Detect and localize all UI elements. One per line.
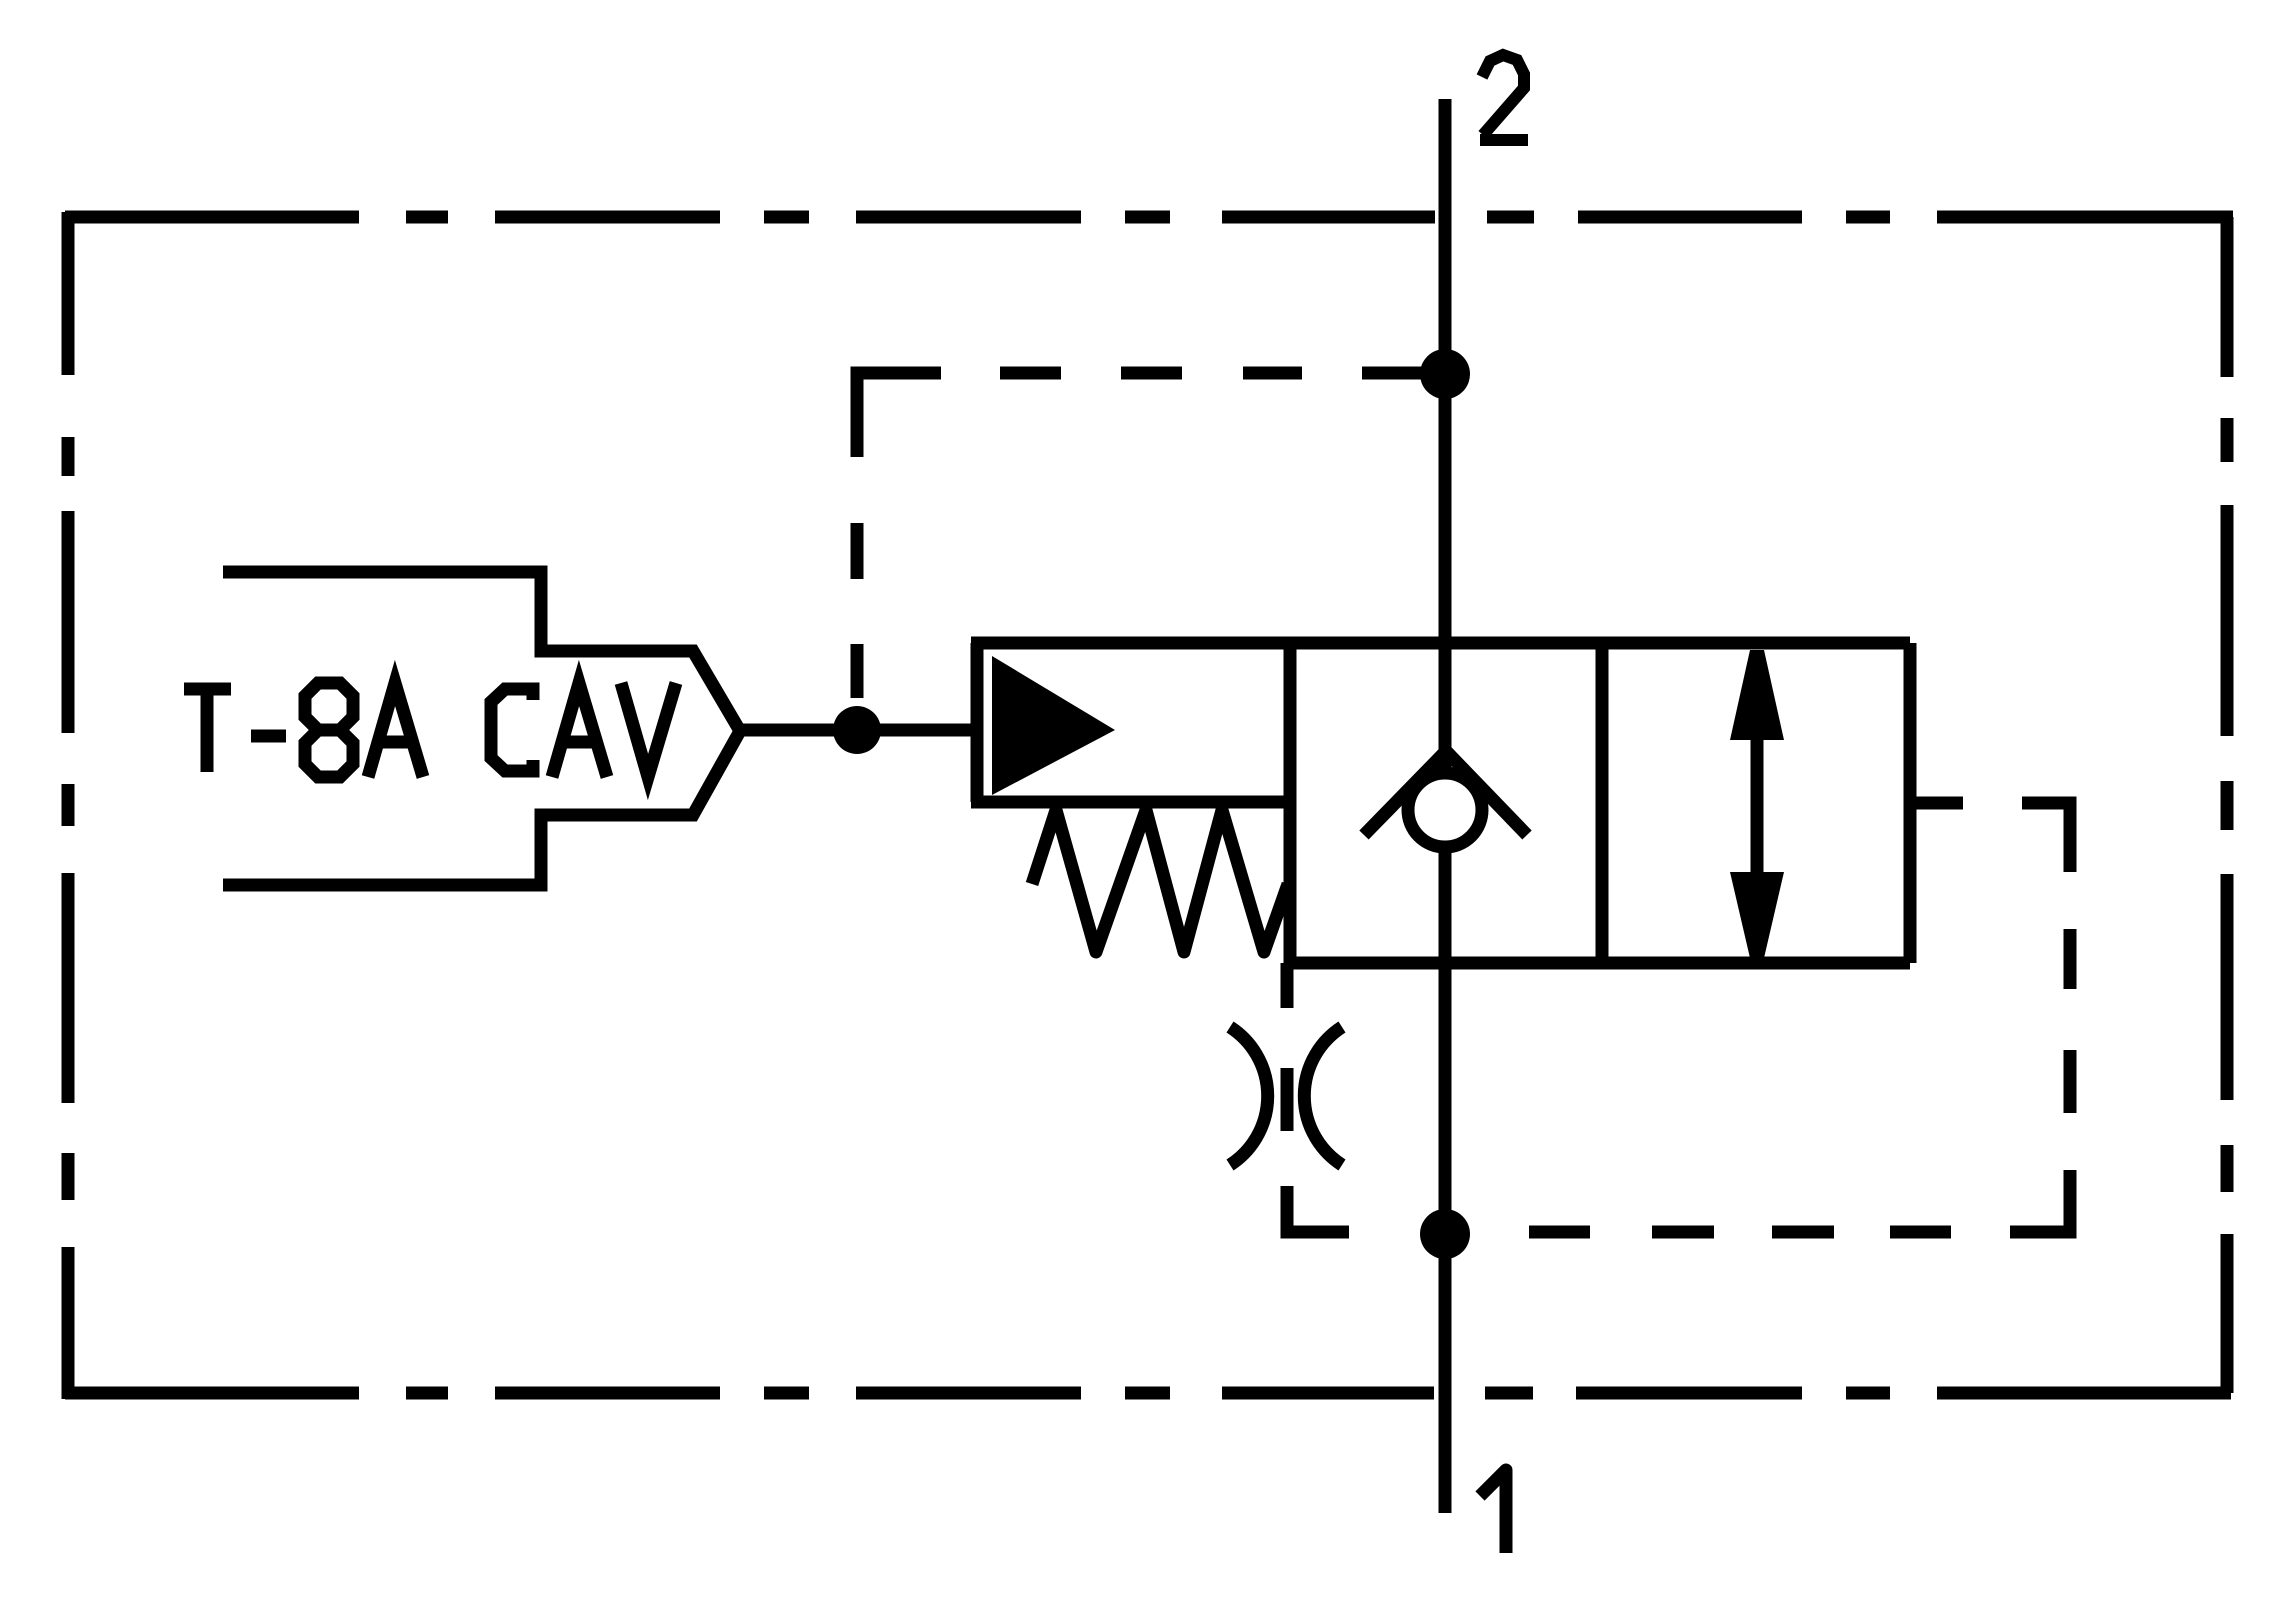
right stub wire (1910, 797, 1963, 810)
port 2 line (upper segment) (1439, 99, 1452, 770)
double arrow top head (1730, 650, 1784, 740)
right pilot dashed line to dot C (1529, 1226, 1951, 1239)
node junction dot A (833, 706, 881, 754)
cavity text glyph C (491, 689, 533, 771)
pilot dashed line horizontal to port 2 (1000, 367, 1421, 380)
port 2 line (lower segment) (1439, 850, 1452, 1513)
check valve seat chevron (1364, 751, 1527, 835)
cavity text glyph 8 (305, 683, 353, 777)
cavity text glyph A2 (552, 683, 607, 777)
port label 1 (1480, 1470, 1506, 1553)
double arrow shaft (1751, 730, 1764, 880)
wire cavity to pilot box (739, 724, 980, 737)
cavity text glyph hyphen (251, 730, 286, 743)
boundary top (dash-dot) (65, 211, 2233, 224)
valve divider left (1284, 643, 1297, 963)
orifice arcs (1230, 1027, 1342, 1165)
node junction dot C on port 1 (1420, 1209, 1470, 1259)
double arrow bottom head (1730, 872, 1784, 958)
node junction dot B on port 2 (1420, 349, 1470, 399)
pilot box bottom edge (971, 796, 1290, 809)
valve divider right (1596, 643, 1609, 963)
right pilot dashed line down (2010, 803, 2070, 1232)
cavity flag outline T-8A CAV (223, 572, 740, 885)
valve top edge (971, 637, 1910, 650)
boundary left (dash-dot) (62, 212, 75, 1399)
cavity text glyph V (621, 683, 676, 777)
cavity text glyph A (368, 683, 423, 777)
boundary right (dash-dot) (2221, 217, 2234, 1393)
valve right edge (1904, 643, 1917, 963)
pilot box left edge (971, 643, 984, 802)
orifice branch dashed lower corner (1287, 1186, 1349, 1232)
orifice branch dashed upper (1281, 963, 1294, 1131)
cavity text glyph T (184, 684, 231, 772)
pilot triangle solid (992, 656, 1115, 795)
boundary bottom (dash-dot) (65, 1387, 2231, 1400)
valve bottom edge (1290, 957, 1910, 970)
spring (1032, 810, 1288, 952)
check valve ball circle (1408, 773, 1482, 847)
pilot dashed line vertical from dot A (857, 373, 941, 698)
port label 2 (1480, 55, 1528, 140)
